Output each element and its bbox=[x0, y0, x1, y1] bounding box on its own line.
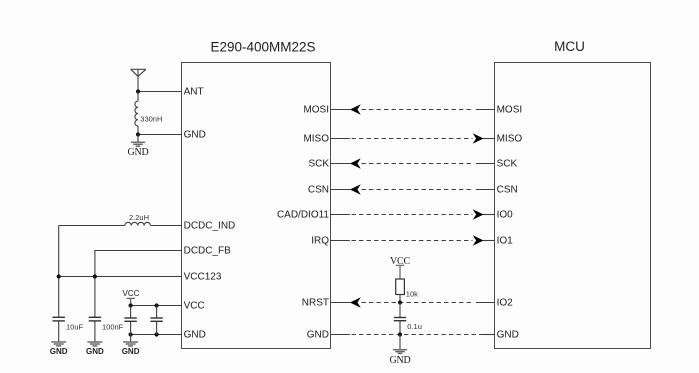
svg-text:VCC: VCC bbox=[123, 289, 140, 298]
svg-text:IO0: IO0 bbox=[497, 210, 514, 221]
svg-text:MISO: MISO bbox=[497, 134, 523, 145]
svg-text:MOSI: MOSI bbox=[497, 105, 523, 116]
svg-text:DCDC_FB: DCDC_FB bbox=[184, 246, 232, 257]
svg-text:MCU: MCU bbox=[554, 39, 585, 54]
wire MISO bbox=[331, 138, 495, 140]
node VCC123-C1 bbox=[57, 274, 61, 278]
node GND-C4 bbox=[155, 332, 159, 336]
node GND-C5 bbox=[398, 332, 402, 336]
wire GND pin bbox=[138, 134, 182, 136]
antenna E1 bbox=[131, 69, 146, 91]
svg-text:GND: GND bbox=[86, 347, 104, 356]
module box U1 E290-400MM22S bbox=[182, 63, 331, 349]
svg-text:GND: GND bbox=[184, 130, 206, 141]
svg-text:2.2uH: 2.2uH bbox=[129, 213, 149, 222]
wire MOSI bbox=[331, 109, 495, 111]
ground C5 bbox=[389, 335, 410, 367]
node VCC-C4 bbox=[155, 303, 159, 307]
wire R1 to NRST bbox=[399, 295, 401, 303]
svg-text:IO2: IO2 bbox=[497, 298, 514, 309]
svg-text:0.1u: 0.1u bbox=[407, 322, 422, 331]
svg-text:IRQ: IRQ bbox=[311, 236, 329, 247]
arrow MISO right bbox=[473, 133, 484, 144]
wire ANT bbox=[138, 91, 182, 93]
svg-text:VCC: VCC bbox=[184, 301, 205, 312]
wire DCDC_IND right segment bbox=[151, 225, 182, 227]
arrow MOSI left bbox=[350, 104, 361, 115]
inductor L2 2.2uH bbox=[125, 222, 151, 225]
wire C2 to ground bbox=[94, 321, 96, 342]
node VCC123-C2 bbox=[93, 274, 97, 278]
node NRST-R1 bbox=[398, 300, 402, 304]
wire C1 to ground bbox=[58, 321, 60, 342]
node GND junction bbox=[136, 132, 140, 136]
svg-text:GND: GND bbox=[184, 330, 206, 341]
left pin labels bbox=[184, 87, 236, 341]
wire CSN bbox=[331, 189, 495, 191]
wire SCK bbox=[331, 163, 495, 165]
wire GND pin bbox=[131, 334, 182, 336]
wire DCDC_IND left segment bbox=[59, 225, 125, 227]
capacitor C5 0.1u bbox=[394, 303, 406, 335]
wire IRQ-IO1 bbox=[331, 240, 495, 242]
svg-text:IO1: IO1 bbox=[497, 236, 514, 247]
capacitor C1 10uF bbox=[53, 317, 65, 321]
wire inductor to GND pin bbox=[137, 126, 139, 135]
resistor R1 10k bbox=[396, 279, 405, 295]
wire rail x58 bbox=[58, 226, 60, 318]
svg-text:330nH: 330nH bbox=[140, 114, 162, 123]
MCU box U2 bbox=[495, 63, 651, 349]
svg-text:E290-400MM22S: E290-400MM22S bbox=[210, 40, 315, 55]
node ANT junction bbox=[136, 89, 140, 93]
node VCC-C3 bbox=[129, 303, 133, 307]
svg-text:10k: 10k bbox=[406, 289, 418, 298]
wire antenna to inductor bbox=[137, 92, 139, 102]
svg-text:CAD/DIO11: CAD/DIO11 bbox=[277, 210, 329, 221]
wire NRST-IO2 bbox=[331, 302, 495, 304]
svg-text:GND: GND bbox=[497, 330, 519, 341]
capacitor C3 bbox=[124, 306, 136, 335]
arrow IO1 right bbox=[473, 235, 484, 246]
wire CAD/DIO11-IO0 bbox=[331, 214, 495, 216]
power VCC symbol middle bbox=[390, 256, 410, 279]
capacitor C2 100nF bbox=[89, 317, 101, 321]
svg-text:VCC123: VCC123 bbox=[184, 272, 222, 283]
power VCC symbol left bbox=[123, 289, 140, 305]
node GND-C3 bbox=[129, 332, 133, 336]
svg-text:GND: GND bbox=[127, 147, 148, 158]
svg-text:CSN: CSN bbox=[308, 185, 329, 196]
capacitor C4 bbox=[150, 306, 162, 335]
svg-text:100nF: 100nF bbox=[102, 323, 124, 332]
svg-text:GND: GND bbox=[307, 330, 329, 341]
arrow SCK left bbox=[350, 158, 361, 169]
wire DCDC_FB bbox=[95, 251, 182, 318]
svg-text:ANT: ANT bbox=[184, 87, 204, 98]
svg-text:MOSI: MOSI bbox=[303, 105, 329, 116]
svg-text:SCK: SCK bbox=[497, 159, 518, 170]
wire VCC pin bbox=[131, 305, 182, 307]
MCU pin labels bbox=[497, 105, 523, 341]
arrow IO0 right bbox=[473, 209, 484, 220]
svg-text:10uF: 10uF bbox=[66, 323, 84, 332]
svg-text:MISO: MISO bbox=[303, 134, 329, 145]
arrow CSN left bbox=[350, 184, 361, 195]
ground C2 bbox=[86, 342, 104, 356]
ground C3 bbox=[122, 335, 140, 357]
arrow NRST left bbox=[350, 297, 361, 308]
ground antenna bbox=[127, 135, 148, 159]
svg-text:DCDC_IND: DCDC_IND bbox=[184, 221, 236, 232]
svg-text:GND: GND bbox=[50, 347, 68, 356]
wire VCC123 bbox=[59, 276, 182, 278]
svg-text:SCK: SCK bbox=[308, 159, 329, 170]
module right pin labels bbox=[277, 105, 329, 341]
svg-text:CSN: CSN bbox=[497, 185, 518, 196]
svg-text:GND: GND bbox=[122, 347, 140, 356]
inductor L1 330nH bbox=[135, 101, 138, 126]
svg-text:NRST: NRST bbox=[302, 298, 329, 309]
svg-text:GND: GND bbox=[389, 355, 410, 366]
wire GND module-MCU bbox=[331, 334, 495, 336]
ground C1 bbox=[50, 342, 68, 356]
